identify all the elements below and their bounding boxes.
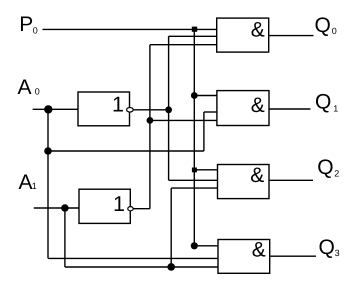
- wire Q1 output: [269, 108, 311, 110]
- wire NOT-A1 into U3 input 3: [150, 119, 217, 121]
- svg-text:1: 1: [333, 103, 338, 113]
- label P0 input: [19, 13, 38, 36]
- junction dot P0 to U3: [191, 92, 198, 99]
- svg-text:1: 1: [112, 92, 124, 116]
- wire Q3 output: [270, 255, 316, 257]
- svg-text:&: &: [251, 18, 265, 41]
- label Q0 output: [315, 14, 337, 37]
- svg-text:&: &: [252, 238, 266, 261]
- wire NOT-A0 into U2 input 2: [169, 35, 217, 37]
- wire NOT-A1 vertical: [149, 45, 151, 209]
- wire P0 input horizontal: [43, 28, 217, 30]
- wire NOT-A0 into U4 input 2: [169, 179, 218, 181]
- AND gate U4 box (Q2): [218, 165, 270, 199]
- svg-text:0: 0: [35, 87, 40, 97]
- junction dot P0 / vertical: [192, 27, 197, 32]
- inverter G1 output bubble: [127, 108, 134, 113]
- label Q3 output: [319, 236, 340, 259]
- junction dot NOT-A0 output: [165, 106, 172, 113]
- wire P0 branch to U4 input 1: [194, 169, 217, 171]
- svg-text:Q: Q: [319, 236, 335, 259]
- wire P0 branch to U3 input 1: [194, 95, 217, 97]
- wire NOT-A0 output from G1 bubble: [133, 109, 169, 111]
- junction dot A1 / vertical: [61, 204, 69, 212]
- wire P0 branch to U5 input 1: [194, 245, 218, 247]
- wire A0 input horizontal: [33, 108, 78, 110]
- inverter G2 box (NOT A1): [79, 189, 130, 223]
- inverter G1 box (NOT A0): [78, 92, 130, 126]
- svg-text:&: &: [250, 164, 264, 187]
- wire A1 into U4 input 3: [171, 187, 217, 189]
- wire NOT-A0 vertical: [168, 36, 170, 180]
- wire A0 into U3 input 2: [204, 111, 217, 113]
- wire A0 riser to U3 input 2: [203, 112, 205, 151]
- svg-text:2: 2: [334, 168, 339, 178]
- wire A1 riser to U4 input 3: [170, 188, 172, 267]
- svg-text:1: 1: [32, 181, 37, 191]
- wire A0 vertical: [47, 109, 49, 258]
- junction dot P0 to U5: [191, 242, 198, 249]
- wire NOT-A1 into U2 input 3: [150, 44, 217, 46]
- junction dot A1 riser: [167, 263, 175, 271]
- svg-text:Q: Q: [315, 14, 331, 37]
- junction dot A0 branch at y151: [44, 147, 52, 155]
- svg-text:1: 1: [113, 192, 125, 216]
- junction dot A0 / vertical: [44, 105, 52, 113]
- svg-text:3: 3: [335, 248, 340, 258]
- label Q1 output: [315, 90, 338, 113]
- svg-text:0: 0: [332, 26, 337, 36]
- svg-text:0: 0: [33, 26, 38, 36]
- wire Q0 output: [269, 35, 314, 37]
- wire P0 vertical distribution: [193, 29, 195, 245]
- label A0 input: [18, 76, 40, 99]
- svg-text:A: A: [18, 76, 32, 99]
- label Q2 output: [317, 156, 339, 179]
- svg-text:&: &: [251, 94, 265, 117]
- svg-text:A: A: [19, 171, 33, 194]
- wire A0 branch horizontal to node at x204: [48, 150, 204, 152]
- junction dot NOT-A1 to U3: [147, 117, 154, 124]
- wire Q2 output: [269, 179, 313, 181]
- wire A1 vertical: [64, 208, 66, 267]
- AND gate U3 box (Q1): [217, 91, 269, 126]
- junction dot P0 to U4: [192, 168, 197, 173]
- svg-text:Q: Q: [317, 156, 333, 179]
- wire A0 bottom horizontal to U5 input 2: [48, 257, 218, 259]
- wire A1 bottom horizontal to U5 input 3: [65, 266, 218, 268]
- svg-text:Q: Q: [315, 90, 331, 113]
- wire A1 input horizontal: [34, 207, 79, 209]
- label A1 input: [19, 171, 37, 194]
- AND gate U2 box (Q0): [217, 18, 269, 52]
- inverter G2 output bubble: [128, 207, 133, 211]
- AND gate U5 box (Q3): [218, 240, 270, 274]
- wire NOT-A1 output from G2 bubble: [133, 208, 150, 210]
- svg-text:P: P: [19, 13, 33, 36]
